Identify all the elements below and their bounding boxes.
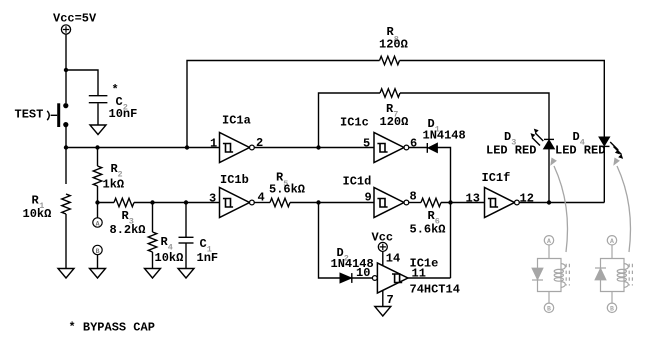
svg-text:9: 9 <box>365 190 372 204</box>
pin 4 <box>258 191 265 205</box>
svg-text:* BYPASS CAP: * BYPASS CAP <box>69 321 155 335</box>
pin 2 <box>256 136 263 150</box>
IC1f label <box>482 171 511 185</box>
resistor R6 <box>421 198 441 207</box>
LED D3 <box>544 139 555 202</box>
D4 labels <box>555 130 605 158</box>
external device annotation 2 (at node A/B) <box>595 236 632 313</box>
wire C2 to ground <box>97 103 99 125</box>
junction R2/R3/node A <box>95 200 99 204</box>
svg-text:120Ω: 120Ω <box>379 38 408 52</box>
pin 5 <box>363 136 370 150</box>
inverter IC1b <box>220 188 255 218</box>
svg-text:1nF: 1nF <box>197 251 219 265</box>
LED D4 <box>599 137 610 203</box>
svg-text:Vcc: Vcc <box>372 231 394 245</box>
diode D1 1N4148 <box>427 143 437 153</box>
pin 7 wire <box>382 291 384 307</box>
junction R7 leg <box>316 145 320 149</box>
svg-text:1: 1 <box>210 136 217 150</box>
wire switch to bus <box>65 127 67 184</box>
R8 labels <box>379 25 408 52</box>
pushbutton TEST <box>47 103 68 127</box>
inverter IC1c <box>374 133 409 163</box>
74HCT14 label <box>410 283 460 297</box>
R3 labels <box>110 209 146 237</box>
svg-text:TEST: TEST <box>15 108 44 122</box>
junction LED D3 bottom <box>547 200 551 204</box>
IC1c label <box>340 115 369 129</box>
R5 labels <box>269 170 305 196</box>
wire R8 rail top <box>187 61 380 148</box>
wire Vcc to switch <box>65 34 67 103</box>
capacitor C1 <box>179 203 194 269</box>
resistor R1 <box>62 194 71 214</box>
pin 9 <box>365 190 372 204</box>
wire IC1c out to D1 <box>409 147 427 149</box>
op... inverter IC1a <box>220 133 255 163</box>
svg-text:7: 7 <box>387 293 394 307</box>
resistor R4 <box>148 203 157 269</box>
svg-text:B: B <box>610 306 614 313</box>
D2 labels <box>331 246 374 271</box>
R1 labels <box>23 194 52 222</box>
wire IC1d out to R6 <box>409 202 421 204</box>
svg-text:5.6kΩ: 5.6kΩ <box>410 223 446 237</box>
wire R7 rail to LED D3 <box>400 93 549 139</box>
ground pin 7 <box>375 307 391 317</box>
resistor R5 <box>270 198 290 207</box>
svg-text:IC1d: IC1d <box>343 174 372 188</box>
inverter IC1f <box>485 188 520 218</box>
gray pointer arrow to LED D3 <box>550 158 567 253</box>
IC1b label <box>220 173 249 187</box>
resistor R2 <box>93 148 102 203</box>
wire IC1a out to IC1c in <box>254 147 374 149</box>
svg-text:IC1a: IC1a <box>222 114 251 128</box>
svg-text:8: 8 <box>410 190 417 204</box>
svg-text:C: C <box>200 237 207 251</box>
wire IC1b out to R5 <box>254 202 270 204</box>
Vcc supply symbol <box>61 25 70 34</box>
wire row2 junction down to D2 <box>319 203 341 279</box>
svg-text:13: 13 <box>466 192 480 206</box>
svg-text:120Ω: 120Ω <box>380 115 409 129</box>
wire row 2 left <box>98 202 115 204</box>
svg-text:B: B <box>547 306 551 313</box>
junction R4 <box>150 200 154 204</box>
svg-text:A: A <box>96 220 100 227</box>
svg-text:10kΩ: 10kΩ <box>155 251 184 265</box>
pin 14 wire <box>382 251 384 266</box>
svg-text:IC1f: IC1f <box>482 171 511 185</box>
gray pointer arrow to LED D4 <box>613 158 630 253</box>
wire R6 to IC1f pin 13 <box>441 202 485 204</box>
node junction Vcc/C2 branch <box>64 68 68 72</box>
D3 emission arrows <box>531 129 544 146</box>
svg-text:5.6kΩ: 5.6kΩ <box>269 183 305 197</box>
Vcc=5V label <box>53 12 97 26</box>
Vcc label <box>372 231 394 245</box>
junction R8 leg on bus <box>185 145 189 149</box>
svg-text:Vcc=5V: Vcc=5V <box>53 12 97 26</box>
pin 13 <box>466 192 480 206</box>
ground under R4 <box>145 269 161 279</box>
external device annotation 1 (at node A/B) <box>532 236 569 313</box>
svg-text:3: 3 <box>209 191 216 205</box>
R7 labels <box>380 102 409 129</box>
pin 1 <box>210 136 217 150</box>
resistor R8 <box>380 56 400 65</box>
svg-text:1N4148: 1N4148 <box>423 128 466 142</box>
junction feedback column row2 <box>448 200 452 204</box>
wire D2 to IC1e pin 10 <box>352 277 372 279</box>
svg-text:IC1c: IC1c <box>340 115 369 129</box>
C2 labels <box>109 83 138 121</box>
wire IC1f out to LEDs <box>519 202 604 204</box>
inverter IC1d <box>374 188 409 218</box>
pin 7 <box>387 293 394 307</box>
junction R2 top <box>95 145 99 149</box>
wire IC1e out up to feedback column <box>408 277 451 279</box>
wire R1 to ground <box>65 214 67 269</box>
wire D1 anode down the feedback column <box>437 148 450 279</box>
svg-text:IC1b: IC1b <box>220 173 249 187</box>
svg-text:D: D <box>573 130 580 144</box>
svg-text:10: 10 <box>356 266 370 280</box>
svg-text:1kΩ: 1kΩ <box>103 178 125 192</box>
wire R3 to IC1b pin3 <box>134 202 220 204</box>
pin 10 <box>356 266 370 280</box>
pin 14 <box>386 252 400 266</box>
wire R8 rail to LED D4 <box>400 61 605 138</box>
node B connector <box>93 245 102 268</box>
pin 3 <box>209 191 216 205</box>
inverter IC1e (bubble on input) <box>372 263 408 293</box>
R6 labels <box>410 209 446 237</box>
svg-text:8.2kΩ: 8.2kΩ <box>110 223 146 237</box>
svg-text:B: B <box>96 248 100 255</box>
svg-text:5: 5 <box>363 136 370 150</box>
ground under R1 <box>58 269 74 279</box>
svg-text:14: 14 <box>386 252 400 266</box>
wire to C2 <box>66 70 98 95</box>
IC1a label <box>222 114 251 128</box>
svg-text:D: D <box>504 130 511 144</box>
svg-text:A: A <box>547 238 551 245</box>
ground under C1 <box>178 269 194 279</box>
pin 11 <box>412 267 426 281</box>
svg-text:12: 12 <box>520 192 534 206</box>
D1 labels <box>423 117 466 142</box>
C1 labels <box>197 237 219 265</box>
svg-text:A: A <box>610 238 614 245</box>
Vcc symbol at pin 14 <box>378 242 387 251</box>
TEST label <box>15 108 44 122</box>
junction row2 / D2 branch <box>316 200 320 204</box>
diode D2 1N4148 <box>340 273 352 283</box>
pin 6 <box>410 136 417 150</box>
BYPASS CAP note <box>69 321 155 335</box>
node A connector <box>93 203 102 228</box>
wire R5 to IC1d pin 9 <box>290 202 374 204</box>
pin 12 <box>520 192 534 206</box>
svg-text:10nF: 10nF <box>109 107 138 121</box>
wire R7 rail <box>319 93 381 148</box>
D4 emission arrows <box>610 142 623 159</box>
node junction bus/left column <box>64 145 68 149</box>
IC1d label <box>343 174 372 188</box>
ground under C2 <box>90 125 106 135</box>
D3 labels <box>486 130 536 158</box>
wire input bus row 1 <box>66 147 220 149</box>
svg-text:74HCT14: 74HCT14 <box>410 283 460 297</box>
svg-text:LED RED: LED RED <box>555 144 605 158</box>
resistor R3 <box>114 198 134 207</box>
IC1e label <box>410 257 439 271</box>
ground under node B <box>90 269 106 279</box>
R2 labels <box>103 162 125 192</box>
svg-text:10kΩ: 10kΩ <box>23 207 52 221</box>
pin 8 <box>410 190 417 204</box>
R4 labels <box>155 235 184 265</box>
capacitor C2 <box>89 96 108 103</box>
resistor R7 <box>380 89 400 98</box>
svg-text:LED RED: LED RED <box>486 144 536 158</box>
junction C1 <box>184 200 188 204</box>
